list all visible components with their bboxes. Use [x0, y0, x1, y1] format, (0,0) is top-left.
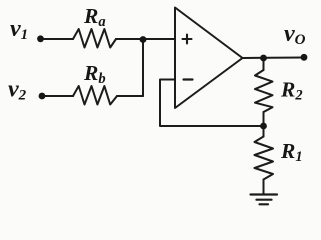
op-amp + pin mark [183, 35, 192, 44]
resistor Ra [73, 29, 116, 48]
node output junction [260, 55, 267, 62]
wire op-amp output [243, 57, 305, 60]
wire Ra to op-amp + input [116, 38, 175, 40]
resistor Rb [73, 86, 117, 105]
node B junction [260, 123, 267, 130]
node vO terminal [301, 54, 308, 61]
node v1 terminal [37, 35, 44, 42]
wire R2 to node B [263, 112, 265, 126]
wire inverting input feedback [160, 80, 264, 127]
resistor R1 [255, 137, 274, 180]
wire node A vertical [142, 39, 144, 96]
op-amp U1 [175, 8, 243, 109]
wire v2 lead [45, 95, 73, 97]
wire Rb to node A [117, 95, 143, 97]
wire node B to R1 [263, 126, 265, 137]
wire output node to R2 [263, 58, 265, 70]
op-amp - pin mark [184, 78, 193, 80]
node v2 terminal [39, 93, 46, 100]
wire v1 lead [43, 38, 73, 40]
wire R1 to ground [263, 180, 265, 195]
resistor R2 [255, 70, 273, 112]
node A junction [140, 36, 147, 43]
ground [251, 195, 278, 205]
